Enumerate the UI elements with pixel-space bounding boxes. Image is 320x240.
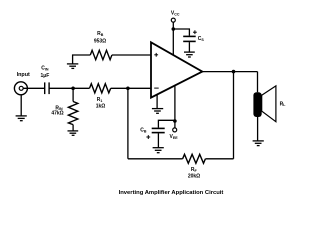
wire RB to op-amp non-inverting input (112, 54, 150, 56)
capacitor CIN (45, 82, 49, 94)
terminal Vcc (171, 18, 175, 22)
ground (RB left end) (67, 64, 78, 69)
wire input to CIN (23, 87, 45, 89)
label R1 1kΩ (96, 97, 106, 109)
ground (speaker) (253, 141, 264, 146)
wire input connector to ground (20, 95, 22, 116)
svg-text:1kΩ: 1kΩ (96, 103, 106, 109)
wire R1 to op-amp inverting input (111, 87, 151, 89)
svg-text:CB: CB (140, 128, 147, 134)
node A junction (RIN tap) (71, 87, 75, 91)
svg-text:RB: RB (97, 31, 104, 37)
ground (op-amp) (152, 109, 163, 114)
wire speaker to ground (257, 117, 259, 141)
wire node A down to RIN (72, 88, 74, 101)
svg-text:1µF: 1µF (41, 73, 50, 79)
wire output down to speaker (257, 72, 259, 93)
op-amp U1 (151, 42, 202, 97)
label RF 20kΩ (188, 167, 200, 180)
resistor RF (183, 154, 206, 163)
wire right riser up to output (233, 72, 235, 159)
wire op-amp output (202, 71, 257, 73)
wire feedback node down (127, 88, 129, 159)
ground (CB) (153, 148, 164, 153)
svg-text:20kΩ: 20kΩ (188, 174, 200, 180)
wire VEE junction to CB (158, 120, 175, 127)
label RB 953Ω (94, 31, 106, 44)
svg-text:Inverting Amplifier Applicatio: Inverting Amplifier Application Circuit (119, 190, 224, 196)
wire CIN to R1 (49, 87, 89, 89)
node B junction (feedback tap) (126, 87, 130, 91)
svg-text:R1: R1 (97, 97, 103, 103)
label CIN 1µF (41, 66, 50, 79)
wire ground to RB (73, 55, 91, 64)
svg-text:Input: Input (17, 72, 30, 78)
wire op-amp ground pin (156, 95, 158, 109)
wire Vcc junction to Cs (173, 29, 189, 36)
svg-text:47kΩ: 47kΩ (51, 111, 63, 117)
junction Vcc/Cs (172, 27, 176, 31)
label CB plus sign (146, 135, 150, 139)
capacitor Cs (183, 36, 196, 41)
wire CB to ground (157, 133, 159, 147)
svg-text:953Ω: 953Ω (94, 38, 106, 44)
wire Cs to ground (188, 42, 190, 52)
wire RF to right riser (205, 158, 233, 160)
input connector J1 (14, 82, 27, 95)
svg-text:CIN: CIN (41, 66, 49, 72)
ground (RIN) (68, 131, 79, 135)
resistor RB (90, 50, 112, 59)
svg-text:RF: RF (191, 167, 198, 173)
junction output/feedback (232, 70, 236, 74)
capacitor CB (152, 128, 165, 132)
resistor R1 (90, 84, 111, 93)
ground (input) (16, 116, 27, 121)
terminal VEE (173, 128, 177, 132)
label RIN 47kΩ (51, 105, 63, 116)
speaker RL (253, 86, 276, 122)
resistor RIN (68, 102, 77, 125)
svg-text:CS: CS (198, 36, 205, 42)
junction VEE/CB (173, 119, 177, 123)
label Cs plus sign (193, 30, 197, 34)
ground (Cs) (184, 52, 195, 57)
svg-text:RL: RL (280, 101, 287, 107)
wire RIN to ground (72, 125, 74, 131)
wire bottom to RF (128, 158, 183, 160)
wire Vcc to op-amp (172, 22, 174, 55)
wire op-amp to VEE (174, 86, 176, 128)
